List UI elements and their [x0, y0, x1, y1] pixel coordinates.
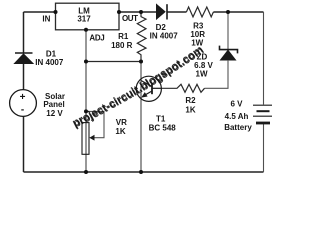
svg-text:1K: 1K	[185, 105, 195, 114]
node VR bottom	[84, 170, 88, 174]
node wiper tap	[84, 109, 88, 113]
transistor T1 BC548	[136, 76, 161, 101]
svg-text:180 R: 180 R	[111, 41, 133, 50]
wire right rail (battery)	[263, 12, 265, 172]
diode D1	[15, 53, 34, 64]
svg-text:Battery: Battery	[224, 123, 252, 132]
zener diode ZD	[205, 12, 238, 88]
svg-text:6 V: 6 V	[230, 100, 243, 109]
wire collector-emitter vertical	[140, 62, 142, 173]
wire top rail left	[24, 11, 56, 13]
node ADJ link right	[139, 60, 143, 64]
svg-text:IN 4007: IN 4007	[150, 32, 179, 41]
svg-text:BC 548: BC 548	[149, 123, 177, 132]
wire ADJ vertical	[85, 30, 87, 172]
battery BT1	[253, 105, 272, 123]
node box OUT pin	[117, 10, 121, 14]
svg-text:4.5 Ah: 4.5 Ah	[225, 112, 249, 121]
regulator U1 LM317	[56, 3, 120, 30]
svg-text:IN 4007: IN 4007	[35, 58, 64, 67]
svg-text:+: +	[20, 92, 26, 103]
resistor R3	[186, 7, 213, 17]
svg-text:1K: 1K	[115, 127, 125, 136]
node zener top	[226, 10, 230, 14]
svg-text:317: 317	[77, 14, 91, 23]
wire top rail right of regulator	[119, 11, 264, 13]
svg-text:project-circuit.blogspot.com: project-circuit.blogspot.com	[71, 44, 206, 130]
wire zener vertical top	[227, 12, 229, 50]
node emitter bottom	[139, 170, 143, 174]
resistor R1	[137, 12, 146, 62]
svg-text:ADJ: ADJ	[89, 33, 104, 42]
svg-text:12 V: 12 V	[46, 109, 63, 118]
svg-text:Panel: Panel	[43, 100, 64, 109]
svg-text:IN: IN	[42, 14, 50, 23]
svg-text:-: -	[21, 105, 24, 116]
resistor R2	[161, 84, 204, 92]
wire zener vertical bottom	[205, 60, 229, 88]
svg-text:1W: 1W	[196, 70, 208, 79]
svg-text:R2: R2	[185, 96, 196, 105]
node ADJ pin	[84, 28, 88, 32]
svg-text:OUT: OUT	[122, 14, 138, 23]
source solar panel	[10, 90, 37, 117]
diode D2	[157, 4, 168, 19]
svg-text:T1: T1	[156, 114, 166, 123]
wire left rail	[23, 12, 25, 172]
node ADJ link left	[84, 60, 88, 64]
node box IN pin	[54, 10, 58, 14]
node R1 top	[139, 10, 143, 14]
potentiometer VR1	[82, 111, 104, 154]
wire wiper	[86, 111, 104, 137]
svg-text:VR: VR	[116, 118, 127, 127]
watermark	[71, 43, 207, 130]
wire ADJ to R1 link	[86, 61, 141, 63]
svg-text:R1: R1	[118, 32, 129, 41]
wire bottom rail	[24, 171, 264, 173]
